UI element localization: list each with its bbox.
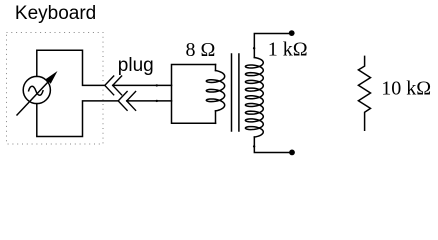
plug chevron top pair: [105, 76, 122, 95]
svg-text:Keyboard: Keyboard: [15, 3, 96, 24]
speaker coil L1 top stub: [215, 65, 217, 71]
svg-text:8 Ω: 8 Ω: [186, 39, 216, 61]
node terminal top dot: [289, 30, 295, 36]
source V1 sine wave: [29, 86, 43, 95]
wire keyboard bottom: source to plug bottom lead: [37, 101, 118, 137]
source V1 arrowhead: [46, 71, 58, 84]
junction pin dot bottom wire: [156, 100, 158, 102]
speaker coil L1 bottom stub: [215, 111, 217, 123]
pin dot secondary top: [253, 47, 255, 49]
wire secondary bottom lead: [254, 137, 290, 152]
transformer T1 secondary winding: [245, 58, 263, 138]
node terminal bottom dot: [289, 150, 295, 156]
svg-text:10 kΩ: 10 kΩ: [381, 77, 431, 99]
keyboard enclosure dotted box: [7, 33, 104, 145]
wire plug bottom right segment: [127, 100, 172, 102]
speaker coil L1 loops: [206, 71, 224, 111]
resistor R1 zigzag: [358, 56, 370, 130]
svg-text:1 kΩ: 1 kΩ: [268, 38, 308, 60]
plug chevron bottom pair: [118, 92, 135, 111]
source V1 circle: [23, 76, 50, 103]
source V1 variable arrow line: [17, 78, 52, 115]
transformer T1 core line right: [238, 54, 240, 131]
wire plug top right segment: [113, 84, 172, 86]
junction pin dot top wire: [156, 84, 158, 86]
wire keyboard top: source to plug top lead: [37, 50, 105, 85]
svg-text:plug: plug: [118, 55, 154, 76]
wire secondary top lead: [254, 34, 290, 58]
speaker coil L1 box: [172, 65, 216, 124]
transformer T1 core line left: [231, 54, 233, 131]
pin dot secondary bottom: [253, 145, 255, 147]
